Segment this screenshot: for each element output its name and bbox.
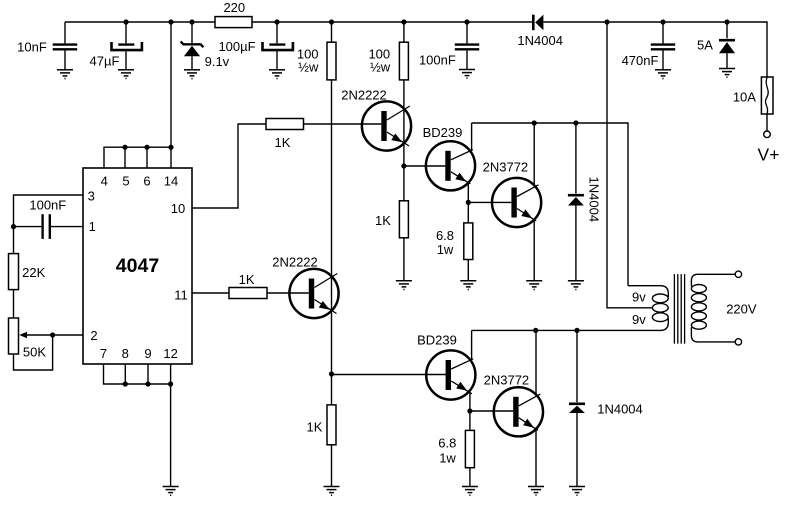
node junction rail / 470nF [660, 19, 665, 24]
svg-text:50K: 50K [23, 345, 46, 360]
svg-text:4047: 4047 [116, 255, 159, 277]
node junction BD239 emitter / 2N3772 base / 6.8 [466, 200, 471, 205]
node junction lower BD239 emitter / 2N3772 base / 6.8 [467, 408, 472, 413]
ground below IC [163, 487, 179, 496]
svg-text:1N4004: 1N4004 [587, 177, 602, 223]
ground below zener [184, 70, 200, 79]
svg-text:BD239: BD239 [417, 333, 457, 348]
diode 5A [697, 22, 735, 68]
svg-text:100nF: 100nF [419, 52, 456, 67]
wire pin 5 stub [124, 147, 126, 168]
node junction upper 2N2222 emitter / BD239 base / 1K [401, 163, 406, 168]
ground below upper 1N4004 [568, 281, 584, 290]
wire IC supply drop to pin bus [170, 22, 172, 147]
wire pin 3 to left RC column [14, 195, 84, 227]
resistor 1K (upper emitter) [375, 166, 408, 280]
wire collector drop from 100 ohm 2 through 2N2222 upper to junction [403, 80, 405, 166]
transistor Q5 BD239 (lower) [417, 333, 475, 400]
node junction output bus / 1N4004 snubber [573, 120, 578, 125]
node bottom bus dot pin 12 [168, 381, 173, 386]
wire pin 7 stub [104, 364, 171, 384]
svg-text:2: 2 [90, 328, 97, 343]
ground below lower 1N4004 [569, 487, 585, 496]
resistor 100 1/2w (right) [368, 22, 408, 80]
resistor 1K (lower emitter) [307, 374, 336, 486]
node junction rail / 100nF [464, 19, 469, 24]
transformer T1 secondary winding coil 1 [691, 285, 706, 293]
svg-text:10nF: 10nF [17, 40, 47, 55]
op IC 4047 body [83, 168, 192, 364]
capacitor 47uF electrolytic [90, 22, 142, 69]
diode 1N4004 (lower snubber) [569, 330, 643, 486]
wire emitter junction to BD239 base [404, 165, 445, 167]
node junction rail / zener [189, 19, 194, 24]
svg-text:½w: ½w [298, 60, 319, 75]
wire lower 2N3772 collector up to output bus [535, 330, 537, 394]
ground below lower 6.8 [462, 487, 478, 496]
wire pin 11 to lower 1K [192, 292, 229, 294]
svg-text:1K: 1K [375, 213, 391, 228]
svg-text:1N4004: 1N4004 [597, 402, 643, 417]
svg-text:6.8: 6.8 [436, 228, 454, 243]
svg-text:½w: ½w [370, 60, 391, 75]
svg-text:10A: 10A [733, 90, 756, 105]
resistor 100 1/2w (left) [297, 22, 336, 80]
wire lower 2N3772 emitter to ground [535, 430, 537, 486]
ground below lower 1K [324, 487, 340, 496]
svg-text:2N2222: 2N2222 [272, 254, 318, 269]
svg-text:V+: V+ [758, 145, 780, 165]
wire collector drop from 100 ohm 1 through 2N2222 lower to junction [331, 80, 333, 374]
wire pin 6 stub [146, 147, 148, 168]
svg-text:9.1v: 9.1v [205, 54, 230, 69]
wire 2N3772 collector up to output bus [533, 123, 535, 186]
wire 22K to potentiometer [13, 290, 15, 318]
wire pin 12 stub [170, 364, 172, 384]
resistor 6.8 1w (lower) [438, 411, 474, 486]
transformer T1 primary winding coil 1 [652, 294, 668, 303]
transistor Q6 2N3772 (lower) [484, 373, 543, 437]
capacitor 100nF (top) [419, 22, 479, 69]
node junction rail / 100 ohm resistor 1 [329, 19, 334, 24]
node junction rail / 100 ohm resistor 2 [401, 19, 406, 24]
svg-text:9v: 9v [632, 289, 646, 304]
ground below 5A diode [719, 69, 735, 78]
svg-text:6: 6 [143, 174, 150, 189]
ground below upper 1K [396, 281, 412, 290]
wire IC ground drop [170, 384, 172, 486]
terminal 220V top [735, 271, 741, 277]
capacitor 100uF electrolytic [218, 22, 292, 69]
svg-text:4: 4 [101, 174, 108, 189]
ground below 10nF [57, 70, 73, 79]
wire BD239 collector up to output bus [471, 123, 473, 150]
node bus dot pin 5 [122, 145, 127, 150]
node junction rail / 100uF [274, 19, 279, 24]
wire pin 10 to upper 1K [192, 124, 266, 208]
transformer T1 primary winding coil 3 [652, 313, 668, 322]
svg-text:47µF: 47µF [90, 54, 120, 69]
svg-text:5A: 5A [697, 38, 713, 53]
wire 1K to lower 2N2222 base [267, 292, 309, 294]
wire left column junction to 22K [13, 227, 15, 254]
svg-text:14: 14 [164, 174, 178, 189]
node junction output bus / 2N3772 collector [532, 120, 537, 125]
transformer T1 secondary bottom lead [691, 327, 735, 342]
node junction rail / IC supply wire [168, 19, 173, 24]
svg-text:1w: 1w [437, 242, 454, 257]
node junction lower 2N2222 emitter / BD239 base / 1K [329, 371, 334, 376]
svg-text:2N3772: 2N3772 [483, 160, 529, 175]
wire junction to 2N3772 base [468, 201, 511, 203]
transformer T1 secondary winding coil 5 [691, 321, 706, 329]
wire bus above 4047 pins 4 5 6 14 [104, 147, 171, 168]
wire upper output bus to transformer drop [472, 123, 628, 286]
capacitor 470nF [622, 22, 676, 69]
svg-text:100nF: 100nF [29, 198, 66, 213]
resistor 1K (upper base) [266, 119, 304, 150]
terminal V+ [758, 131, 780, 165]
wire center-tap feed down to transformer [607, 22, 652, 308]
wire lower output bus to transformer [472, 329, 661, 331]
svg-text:BD239: BD239 [423, 125, 463, 140]
transistor Q3 BD239 (upper) [423, 125, 475, 191]
wire BD239 emitter down to junction [467, 183, 469, 202]
wire top supply rail middle segment [252, 21, 532, 23]
potentiometer 50K [9, 318, 53, 360]
svg-text:2N2222: 2N2222 [341, 88, 387, 103]
wire lower BD239 collector up to output bus [471, 330, 473, 359]
ground below upper 2N3772 emitter [526, 281, 542, 290]
transformer T1 primary top lead [628, 286, 668, 297]
wire pot wiper to pin 2 [53, 334, 83, 336]
svg-text:9v: 9v [632, 312, 646, 327]
svg-text:5: 5 [122, 174, 129, 189]
node junction wiper / pot bottom loop [50, 332, 55, 337]
wire junction to lower 2N3772 base [470, 410, 513, 412]
node junction rail / 47uF [123, 19, 128, 24]
wire lower BD239 emitter down to junction [469, 393, 471, 411]
wire 2N3772 emitter to ground [533, 220, 535, 280]
transformer T1 core lamination 2 [677, 274, 679, 344]
svg-text:100µF: 100µF [218, 39, 255, 54]
svg-text:1K: 1K [275, 135, 291, 150]
svg-text:1: 1 [89, 219, 96, 234]
wire top supply rail right segment to top-right corner [544, 22, 768, 77]
svg-text:22K: 22K [22, 265, 45, 280]
wire fuse to V+ terminal [766, 114, 768, 131]
node junction lower bus / 2N3772 collector [533, 328, 538, 333]
svg-text:8: 8 [122, 346, 129, 361]
ground below 470nF [655, 70, 671, 79]
resistor 6.8 1w (upper) [436, 202, 473, 280]
node bus dot pin 14 [168, 145, 173, 150]
svg-text:1K: 1K [307, 419, 323, 434]
transistor Q2 2N2222 (lower) [272, 254, 338, 318]
fuse 10A [733, 77, 773, 114]
transformer T1 secondary winding coil 4 [691, 312, 706, 320]
node junction lower bus / 1N4004 snubber [574, 328, 579, 333]
resistor 220 [215, 0, 252, 27]
svg-text:7: 7 [100, 346, 107, 361]
ground below 100uF [269, 70, 285, 79]
resistor 22K [9, 254, 46, 290]
transformer T1 secondary winding coil 3 [691, 303, 706, 311]
svg-text:220V: 220V [726, 301, 757, 316]
wire 1K to upper 2N2222 base [304, 123, 382, 125]
ground below upper 6.8 [460, 281, 476, 290]
resistor 1K (lower base) [229, 272, 267, 299]
transformer T1 primary winding coil 2 [652, 303, 668, 312]
node bus dot pin 6 [144, 145, 149, 150]
wire pin 8 stub [124, 364, 126, 384]
transformer T1 core lamination 4 [684, 274, 686, 344]
wire top supply rail left segment [65, 21, 215, 23]
wire emitter junction to lower BD239 base [332, 374, 446, 376]
wire pin 9 stub [147, 364, 149, 384]
svg-text:1w: 1w [439, 451, 456, 466]
svg-text:10: 10 [171, 201, 185, 216]
node bottom bus dot pin 9 [145, 381, 150, 386]
transistor Q1 2N2222 (upper) [341, 88, 411, 151]
ground below lower 2N3772 emitter [528, 487, 544, 496]
node junction left column / 100nF [11, 224, 16, 229]
transistor Q4 2N3772 (upper) [483, 160, 542, 227]
svg-text:12: 12 [163, 346, 177, 361]
node junction rail / 5A diode [724, 19, 729, 24]
capacitor 10nF [17, 22, 77, 69]
node bottom bus dot pin 8 [123, 381, 128, 386]
svg-text:3: 3 [88, 188, 95, 203]
diode 1N4004 (upper snubber) [568, 123, 602, 280]
transformer T1 core lamination 1 [673, 274, 675, 344]
svg-text:11: 11 [174, 288, 188, 303]
terminal 220V bottom [735, 339, 741, 345]
svg-text:1K: 1K [239, 272, 255, 287]
svg-text:1N4004: 1N4004 [517, 33, 563, 48]
svg-text:2N3772: 2N3772 [484, 373, 530, 388]
capacitor 100nF (timing, left) [14, 198, 84, 239]
wire pot bottom return loop [14, 335, 53, 370]
zener diode 9.1v [181, 22, 230, 69]
transformer T1 core lamination 3 [680, 274, 682, 344]
ground below 47uF [118, 70, 134, 79]
svg-text:220: 220 [223, 0, 245, 15]
svg-text:9: 9 [144, 346, 151, 361]
diode 1N4004 (series in rail) [517, 15, 563, 48]
wire pin 14 stub [170, 147, 172, 168]
transformer T1 secondary top lead [691, 274, 735, 286]
ground below 100nF [459, 70, 475, 79]
svg-text:6.8: 6.8 [438, 436, 456, 451]
svg-text:470nF: 470nF [622, 53, 659, 68]
transformer T1 primary bottom lead corner [661, 319, 669, 331]
transformer T1 secondary winding coil 2 [691, 294, 706, 302]
node junction rail / center-tap feed [604, 19, 609, 24]
